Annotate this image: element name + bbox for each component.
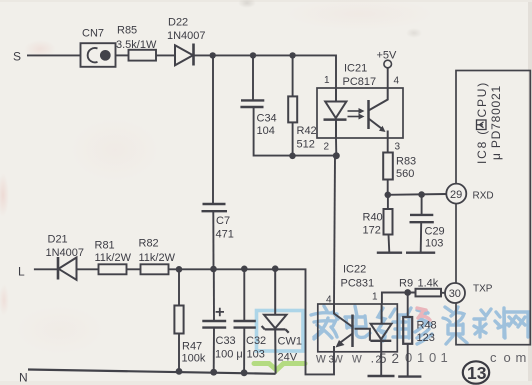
- svg-text:TXP: TXP: [473, 284, 493, 295]
- IC22 phototransistor: [334, 304, 353, 352]
- label 24V: [278, 352, 298, 364]
- node 30 circle: [445, 283, 465, 303]
- svg-text:R9: R9: [399, 278, 413, 290]
- label C33: [216, 335, 236, 347]
- resistor R9: [416, 289, 442, 297]
- svg-text:μ PD780021: μ PD780021: [489, 85, 503, 160]
- label 100u: [215, 349, 243, 361]
- node N: [19, 371, 28, 385]
- wire N rail: [28, 370, 276, 374]
- label R40: [363, 212, 383, 224]
- label C29: [425, 226, 445, 238]
- label R85: [117, 25, 137, 37]
- label R42: [297, 125, 317, 137]
- resistor R47: [174, 269, 183, 371]
- svg-text:100 μ: 100 μ: [215, 349, 243, 361]
- label 1N4007 (D22): [167, 30, 206, 42]
- svg-text:CPU): CPU): [475, 81, 489, 118]
- svg-text:1.4k: 1.4k: [418, 278, 439, 290]
- svg-text:R48: R48: [417, 320, 437, 332]
- wire L to D21: [34, 268, 58, 270]
- wire R9 to node 30: [441, 292, 445, 294]
- watermark char 维: [378, 308, 407, 341]
- svg-text:1: 1: [441, 350, 448, 365]
- wire C7 branch upper: [212, 55, 214, 203]
- label 512: [297, 139, 315, 151]
- svg-text:13: 13: [467, 363, 487, 383]
- wire R42 to mid rail: [292, 122, 294, 155]
- watermark char 料: [474, 308, 508, 337]
- watermark char 网: [504, 312, 528, 338]
- svg-text:PC817: PC817: [343, 76, 377, 88]
- junction R47: [176, 266, 183, 273]
- wire R81 to R82: [127, 268, 141, 270]
- svg-text:N: N: [19, 371, 28, 385]
- svg-text:R83: R83: [396, 156, 416, 168]
- junction top rail / C34: [250, 52, 256, 58]
- ground bar R48: [398, 375, 421, 377]
- resistor R40: [384, 195, 393, 253]
- label IC8 (内CPU) rotated: [475, 81, 503, 164]
- IC8 CPU box: [456, 71, 530, 345]
- wire C7 branch lower: [212, 211, 214, 269]
- svg-text:.: .: [371, 351, 375, 366]
- svg-text:104: 104: [257, 125, 275, 137]
- svg-text:103: 103: [247, 349, 265, 361]
- wire D21 to R81: [77, 268, 99, 270]
- svg-text:R85: R85: [117, 25, 137, 37]
- svg-text:24V: 24V: [278, 352, 298, 364]
- label RXD: [473, 191, 494, 202]
- resistor R42: [288, 96, 297, 122]
- svg-text:CW1: CW1: [278, 336, 302, 348]
- op-to: optocoupler IC21 PC817 box: [317, 88, 403, 138]
- junction C33/N: [210, 369, 217, 376]
- label IC22: [343, 264, 366, 276]
- wire CN7 to R85: [116, 54, 129, 56]
- watermark green squiggle: [254, 364, 305, 371]
- junction C32/N: [241, 369, 248, 376]
- pin 4 label (IC22): [326, 295, 332, 306]
- label IC21: [344, 63, 367, 75]
- label R81: [95, 240, 115, 252]
- svg-text:D21: D21: [48, 234, 68, 246]
- svg-text:1N4007: 1N4007: [46, 247, 85, 259]
- label CW1: [278, 336, 302, 348]
- label C34: [257, 113, 277, 125]
- wire top rail D22 to IC21 pin1: [194, 55, 337, 88]
- svg-text:R81: R81: [95, 240, 115, 252]
- watermark char 资: [443, 307, 467, 344]
- svg-text:103: 103: [425, 238, 443, 250]
- +5V supply: [377, 50, 398, 89]
- svg-text:IC22: IC22: [343, 264, 366, 276]
- svg-text:R40: R40: [363, 212, 383, 224]
- svg-text:0: 0: [429, 350, 436, 365]
- watermark char 家: [311, 306, 338, 339]
- resistor R85: [129, 50, 157, 61]
- svg-text:30: 30: [449, 288, 461, 300]
- ground bar IC22 pin2: [368, 375, 395, 377]
- svg-text:2: 2: [392, 351, 400, 366]
- wire IC21 pin2 to mid-rail junction: [335, 138, 337, 156]
- svg-text:S: S: [13, 50, 21, 64]
- label 471: [216, 229, 234, 241]
- circled 13 page mark: [463, 361, 489, 383]
- label R47: [182, 341, 202, 353]
- watermark pink strokes over 修: [417, 308, 430, 320]
- svg-text:R47: R47: [182, 341, 202, 353]
- label CN7: [82, 28, 104, 40]
- junction CW1: [272, 265, 279, 272]
- junction R42 / mid rail: [289, 153, 296, 160]
- watermark www.520101.com row: [315, 350, 526, 366]
- svg-text:PC831: PC831: [341, 278, 375, 290]
- wire R85 to D22: [156, 54, 175, 56]
- label 11k/2W (R82): [139, 252, 176, 264]
- IC21 phototransistor: [369, 88, 388, 138]
- label C7: [216, 215, 230, 227]
- IC21 LED: [324, 88, 347, 138]
- capacitor C33: [202, 269, 226, 372]
- svg-text:c: c: [490, 350, 497, 365]
- svg-text:IC8 (: IC8 (: [475, 129, 489, 164]
- svg-text:3: 3: [329, 355, 335, 366]
- label D22: [168, 17, 188, 29]
- capacitor C34: [240, 100, 264, 107]
- node S: [13, 50, 21, 64]
- watermark char 电: [345, 306, 370, 337]
- label R9: [399, 278, 413, 290]
- pin 2 label (IC21): [324, 142, 330, 153]
- watermark cyan box around CW1: [257, 311, 304, 352]
- svg-text:1: 1: [417, 350, 424, 365]
- svg-text:C29: C29: [425, 226, 445, 238]
- junction C32: [241, 266, 248, 273]
- svg-text:C34: C34: [257, 113, 277, 125]
- wire IC21 pin3 to R83: [387, 138, 389, 153]
- svg-text:C33: C33: [216, 335, 236, 347]
- pin 3 label (IC21): [395, 142, 401, 153]
- svg-text:11k/2W: 11k/2W: [95, 252, 132, 264]
- svg-text:R82: R82: [139, 238, 159, 250]
- svg-text:3: 3: [395, 142, 401, 153]
- ground bar C29: [406, 251, 435, 253]
- capacitor C29: [410, 195, 434, 253]
- junction C29: [418, 191, 425, 198]
- IC22 LED: [370, 304, 391, 352]
- pin 4 label (IC21): [394, 76, 400, 87]
- wire IC21 pin2 node down to IC22 pin4: [334, 156, 335, 304]
- IC21 light arrows: [348, 108, 365, 120]
- label 103 (C32): [247, 349, 265, 361]
- svg-text:C32: C32: [246, 335, 266, 347]
- junction R83/R40: [385, 192, 392, 199]
- wire R42 branch upper: [292, 55, 294, 96]
- label PC831: [341, 278, 375, 290]
- node L: [18, 265, 25, 279]
- label 3.5k/1W: [116, 39, 157, 51]
- ground bar R40: [377, 251, 402, 253]
- svg-text:w: w: [315, 351, 326, 366]
- resistor R83: [383, 153, 393, 180]
- svg-text:11k/2W: 11k/2W: [139, 252, 176, 264]
- svg-text:w: w: [351, 351, 362, 366]
- svg-text:4: 4: [326, 295, 332, 306]
- IC22 coupling step: [355, 329, 370, 341]
- svg-text:RXD: RXD: [473, 191, 494, 202]
- label PC817: [343, 76, 377, 88]
- svg-text:1: 1: [324, 75, 330, 86]
- label R48: [417, 320, 437, 332]
- capacitor C32: [234, 269, 256, 373]
- svg-text:29: 29: [450, 189, 462, 201]
- svg-text:3.5k/1W: 3.5k/1W: [116, 39, 157, 51]
- junction IC21 pin2 node: [333, 152, 340, 159]
- svg-text:1: 1: [372, 292, 378, 303]
- label 172: [363, 225, 381, 237]
- svg-text:CN7: CN7: [82, 28, 104, 40]
- diode D21: [58, 257, 77, 280]
- wire IC22 pin2 down: [380, 352, 382, 376]
- svg-text:IC21: IC21: [344, 63, 367, 75]
- svg-text:L: L: [18, 265, 25, 279]
- diode D22: [175, 44, 194, 66]
- svg-text:R42: R42: [297, 125, 317, 137]
- label 560: [396, 168, 414, 180]
- label 1N4007 (D21): [46, 247, 85, 259]
- pin 1 label (IC21): [324, 75, 330, 86]
- wire IC22 pin1 up to R9 rail: [382, 293, 416, 305]
- resistor R81: [99, 264, 127, 274]
- label 100k: [182, 353, 206, 365]
- label 11k/2W (R81): [95, 252, 132, 264]
- junction C7/C33: [210, 266, 217, 273]
- pin 1 label (IC22): [372, 292, 378, 303]
- connector CN7: [81, 43, 116, 67]
- capacitor C7: [202, 204, 228, 211]
- svg-text:1N4007: 1N4007: [167, 30, 206, 42]
- zener CW1: [262, 269, 289, 374]
- watermark char 修 (blue part): [406, 308, 432, 344]
- label 1.4k: [418, 278, 439, 290]
- wire C34 branch upper: [252, 55, 254, 100]
- label 123: [417, 332, 435, 344]
- junction R47/N: [176, 368, 183, 375]
- resistor R82: [141, 264, 169, 274]
- optocoupler IC22 PC831 box: [318, 304, 398, 352]
- junction top rail / C7: [210, 52, 216, 58]
- wire R83 to RXD node: [387, 180, 389, 195]
- wire L rail to IC22 pin3: [169, 269, 335, 374]
- svg-text:512: 512: [297, 139, 315, 151]
- junction top rail / R42: [289, 52, 295, 58]
- node 29 circle: [446, 184, 466, 204]
- svg-text:100k: 100k: [182, 353, 206, 365]
- resistor R48: [403, 293, 412, 377]
- label R83: [396, 156, 416, 168]
- svg-text:172: 172: [363, 225, 381, 237]
- label R82: [139, 238, 159, 250]
- svg-text:560: 560: [396, 168, 414, 180]
- pin 3 label (IC22): [329, 355, 335, 366]
- label 103 (C29): [425, 238, 443, 250]
- wire RXD rail: [388, 193, 447, 196]
- svg-text:2: 2: [324, 142, 330, 153]
- svg-text:o: o: [504, 350, 511, 365]
- pin 2 label (IC22): [376, 355, 382, 366]
- label TXP: [473, 284, 493, 295]
- junction R9/R48: [404, 289, 411, 296]
- label 104: [257, 125, 275, 137]
- svg-text:D22: D22: [168, 17, 188, 29]
- svg-text:123: 123: [417, 332, 435, 344]
- svg-text:471: 471: [216, 229, 234, 241]
- label C32: [246, 335, 266, 347]
- svg-text:4: 4: [394, 76, 400, 87]
- svg-text:m: m: [516, 350, 527, 365]
- svg-text:C7: C7: [216, 215, 230, 227]
- wire S to CN7: [27, 54, 81, 56]
- label D21: [48, 234, 68, 246]
- wire C34 to mid rail: [254, 107, 337, 156]
